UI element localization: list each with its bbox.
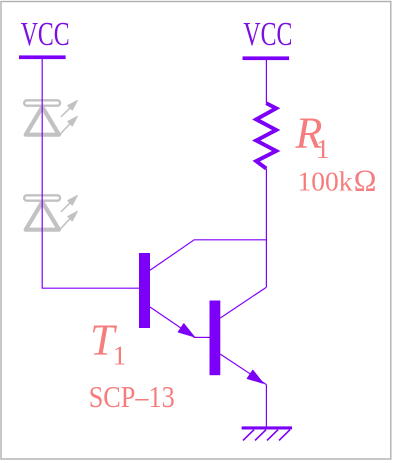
transistor T1 base bar <box>139 253 150 328</box>
svg-text:1: 1 <box>316 134 330 164</box>
wire: T1 collector diagonal and horizontal to right rail <box>150 240 266 270</box>
svg-text:100k: 100k <box>298 166 354 196</box>
wire: right rail VCC to resistor top <box>265 60 267 103</box>
wire: emitter to ground <box>265 385 267 427</box>
svg-text:1: 1 <box>113 341 127 371</box>
ground <box>242 426 292 440</box>
transistor T2 base bar <box>210 301 221 376</box>
resistor R1 <box>256 103 276 168</box>
wire: left rail from VCC bar through LEDs to T1 base <box>42 59 139 288</box>
svg-text:VCC: VCC <box>21 16 70 53</box>
wire: T2 emitter diagonal <box>220 354 266 385</box>
arrow T2 emitter <box>247 370 263 383</box>
svg-text:SCP–13: SCP–13 <box>89 380 175 414</box>
wire: T1 emitter to T2 base <box>194 336 210 338</box>
arrow T1 emitter <box>178 324 194 337</box>
svg-text:Ω: Ω <box>354 163 377 197</box>
wire: T2 collector diagonal <box>220 287 266 318</box>
VCC power bar right <box>243 56 290 60</box>
svg-text:VCC: VCC <box>243 16 292 53</box>
VCC power bar left <box>19 55 66 59</box>
wire: T1 emitter diagonal <box>150 307 195 337</box>
LED D2 <box>24 195 77 229</box>
wire: resistor bottom to collector node <box>265 169 267 288</box>
LED D1 <box>24 100 77 134</box>
